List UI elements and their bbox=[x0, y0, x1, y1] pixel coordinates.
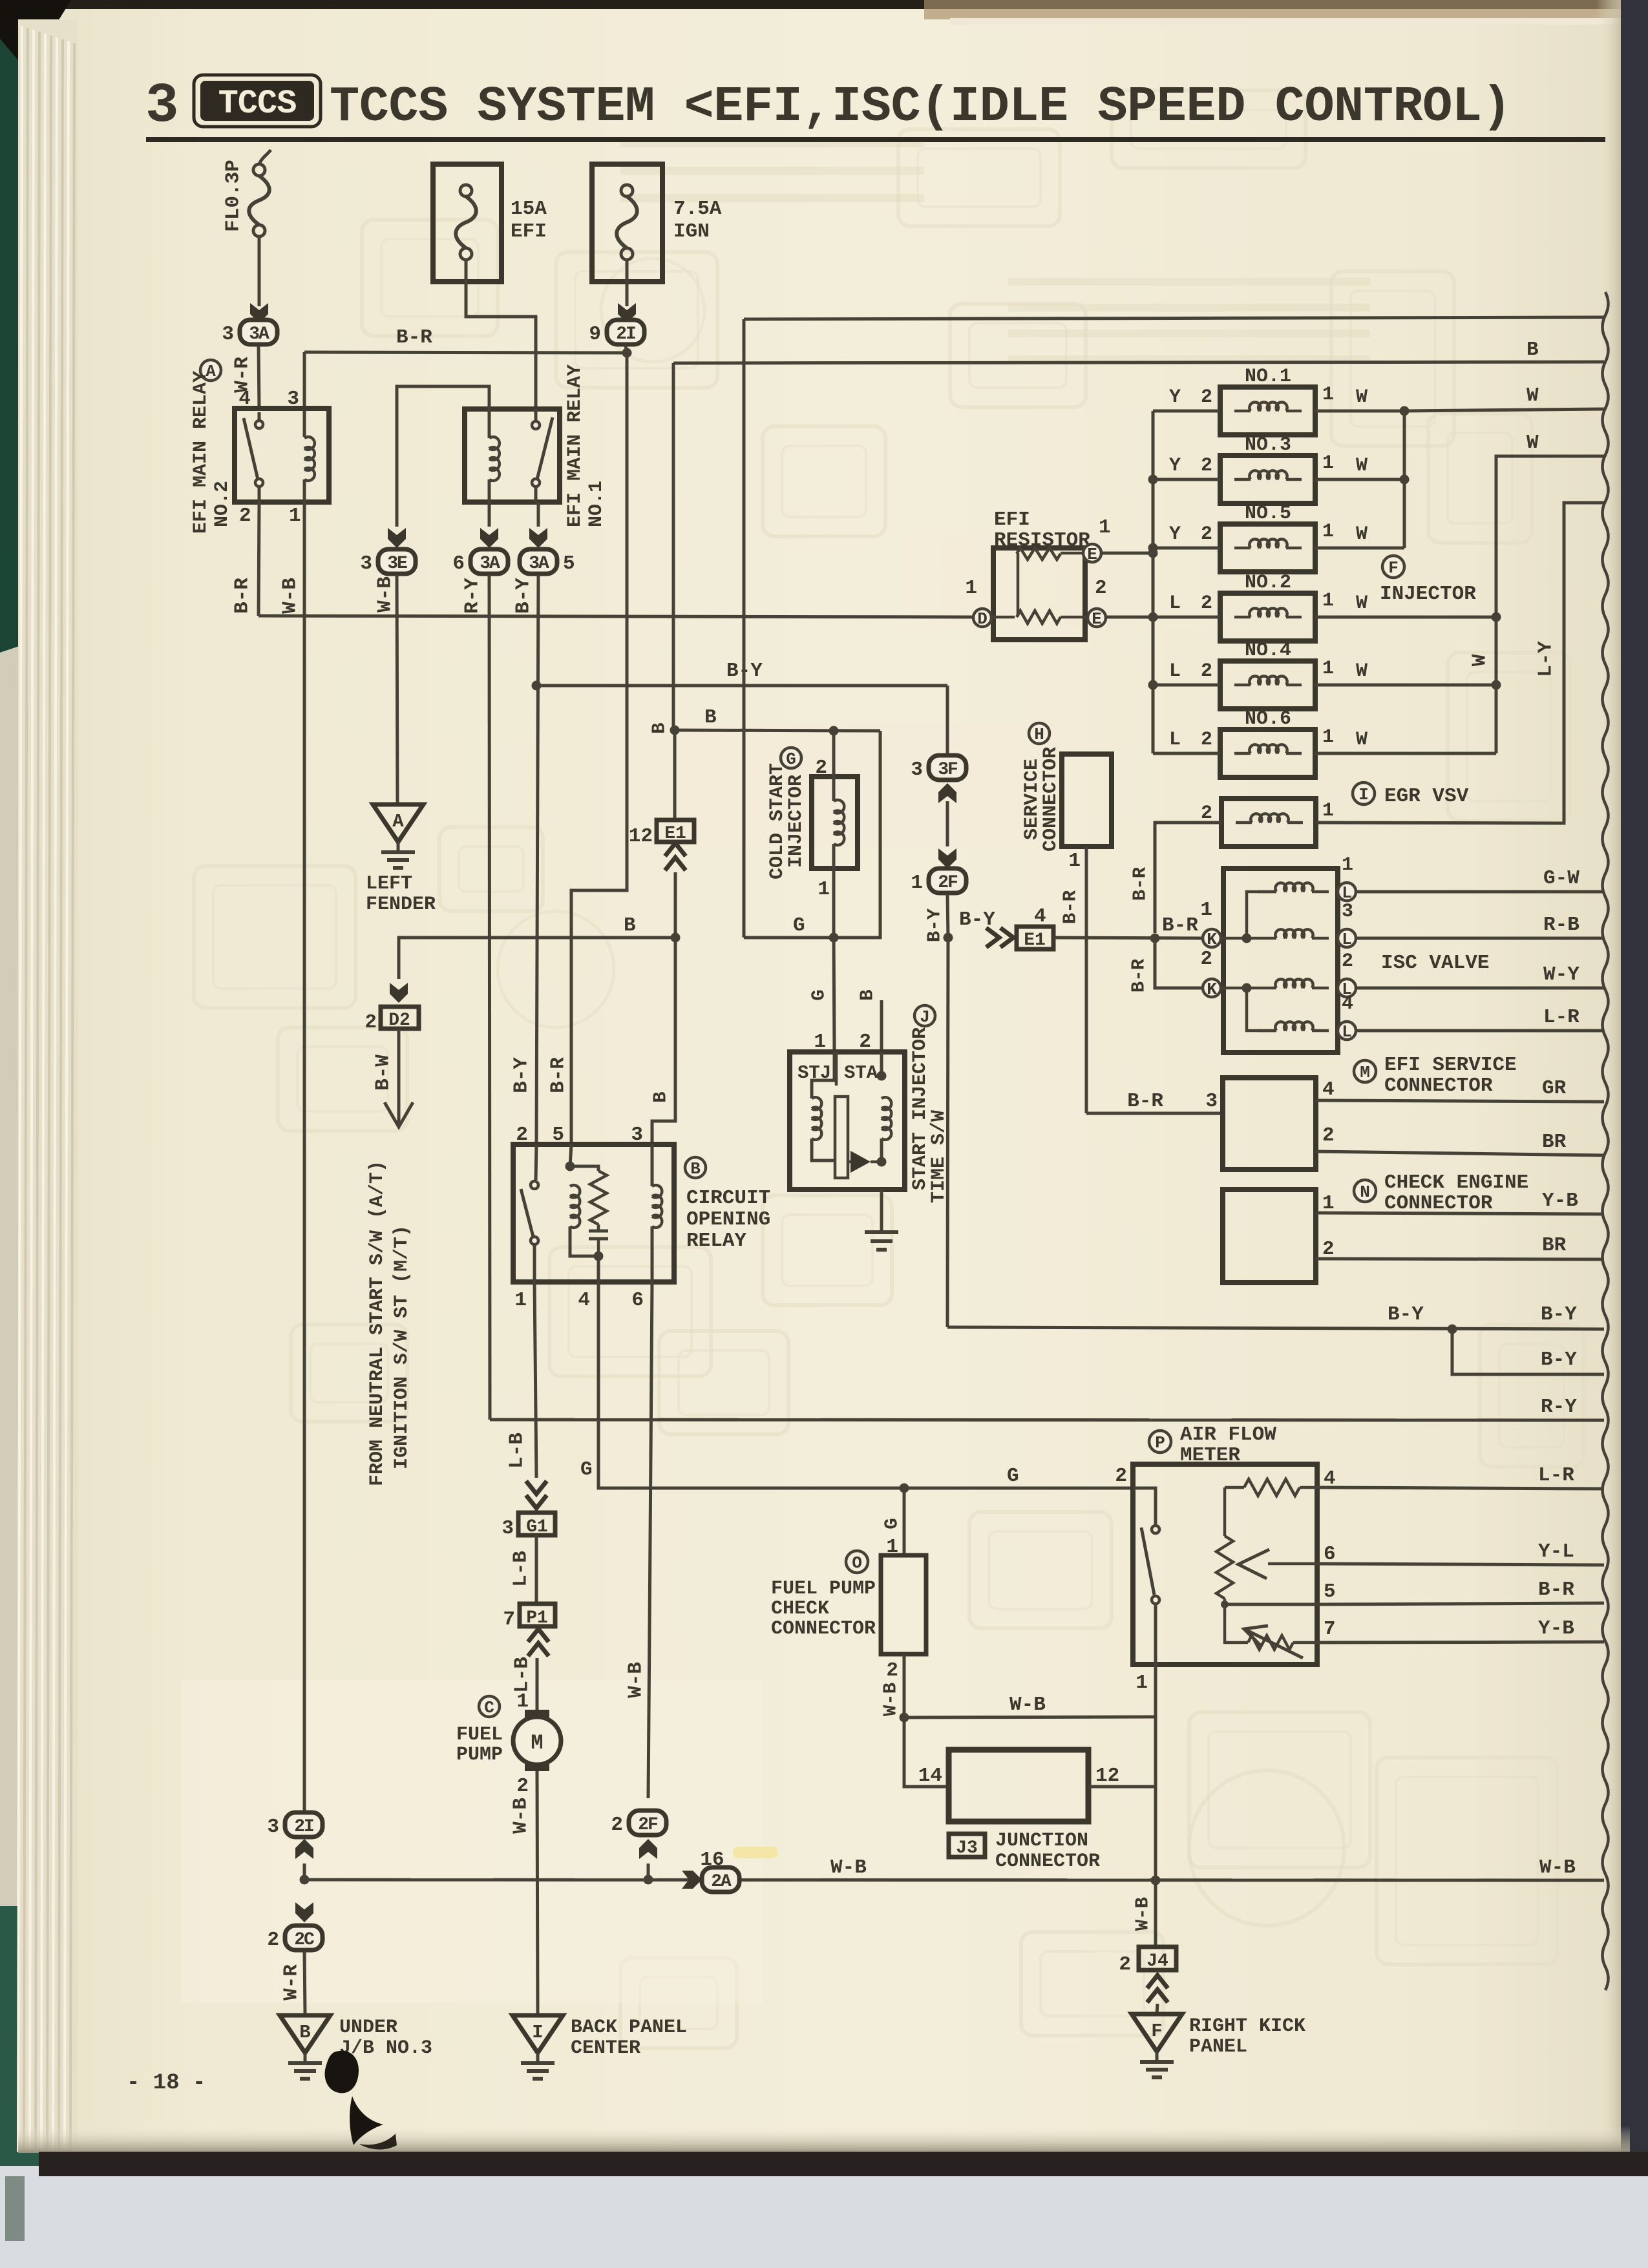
svg-text:B-Y: B-Y bbox=[1541, 1349, 1577, 1371]
arrow into 3A bbox=[480, 528, 498, 548]
svg-text:3: 3 bbox=[911, 759, 923, 781]
contact triangle bbox=[850, 1151, 871, 1173]
wire bbox=[1286, 752, 1302, 755]
svg-text:2: 2 bbox=[1119, 1953, 1131, 1976]
svg-text:7: 7 bbox=[503, 1608, 515, 1631]
wire L-R to right edge bbox=[1317, 1487, 1604, 1489]
wire L-B bbox=[535, 1535, 538, 1604]
wire B-R to ISC pin 1 bbox=[1053, 938, 1203, 938]
connector oval 2C (row 2) 2C bbox=[267, 1926, 322, 1951]
svg-text:3F: 3F bbox=[938, 760, 958, 780]
circled letter L tag L pin 3 bbox=[1338, 929, 1356, 949]
wire W out of NO.5 bbox=[1315, 547, 1404, 550]
junction STA contact bbox=[877, 1157, 887, 1167]
junction bbox=[1148, 475, 1158, 485]
svg-text:INJECTOR: INJECTOR bbox=[1380, 583, 1476, 605]
wire bbox=[1258, 937, 1276, 940]
connector oval 2I (row 3) 2I bbox=[267, 1812, 322, 1838]
wire W-Y to right edge bbox=[1356, 987, 1604, 990]
svg-text:G: G bbox=[793, 914, 805, 937]
svg-text:A: A bbox=[392, 811, 404, 832]
svg-text:K: K bbox=[1207, 980, 1217, 999]
svg-text:2: 2 bbox=[1342, 950, 1353, 972]
ISC coil pin 1 bbox=[1275, 883, 1313, 892]
top-left black corner bbox=[0, 0, 71, 90]
circled letter F tag F bbox=[1382, 556, 1404, 578]
svg-text:B: B bbox=[704, 706, 717, 729]
svg-text:B-Y: B-Y bbox=[1388, 1303, 1424, 1326]
svg-text:2: 2 bbox=[1201, 660, 1212, 682]
svg-text:W-R: W-R bbox=[280, 1964, 303, 2000]
svg-text:IGNITION S/W ST (M/T): IGNITION S/W ST (M/T) bbox=[391, 1225, 413, 1469]
wire B horizontal (top) bbox=[673, 362, 1604, 363]
svg-text:6: 6 bbox=[452, 552, 465, 575]
bimetal strip bbox=[835, 1097, 848, 1178]
wire bbox=[1293, 1641, 1317, 1644]
connector box P1 bbox=[520, 1604, 555, 1626]
svg-text:1: 1 bbox=[514, 1289, 527, 1312]
wire L-Y from EGR VSV to right edge bbox=[1316, 503, 1604, 823]
svg-text:G: G bbox=[882, 1518, 903, 1529]
wire switch to pin 1 bbox=[1154, 1604, 1157, 1664]
circled letter P tag P bbox=[1149, 1431, 1171, 1453]
junction B bbox=[670, 726, 680, 735]
ground UNDER J/B NO.3 bbox=[280, 2015, 330, 2079]
svg-text:16: 16 bbox=[700, 1849, 724, 1871]
junction STA coil top bbox=[877, 1071, 887, 1081]
svg-text:G: G bbox=[580, 1458, 593, 1481]
svg-text:W-B: W-B bbox=[374, 576, 397, 613]
svg-text:L: L bbox=[1342, 930, 1352, 949]
svg-text:1: 1 bbox=[1322, 800, 1334, 822]
wire L into NO.6 bbox=[1153, 752, 1220, 755]
circled letter A tag A bbox=[200, 360, 221, 381]
svg-text:14: 14 bbox=[918, 1765, 942, 1787]
svg-text:CONNECTOR: CONNECTOR bbox=[1384, 1075, 1493, 1097]
svg-text:R-B: R-B bbox=[1543, 914, 1579, 936]
junction bbox=[1400, 406, 1410, 416]
wire pin1 to STJ coil bbox=[812, 1052, 834, 1098]
svg-text:IGN: IGN bbox=[673, 220, 710, 243]
wire B-Y horizontal to 3F bbox=[536, 684, 947, 688]
svg-text:7.5A: 7.5A bbox=[673, 198, 722, 220]
junction bus/E1 bbox=[1148, 549, 1158, 558]
svg-text:B-R: B-R bbox=[1128, 958, 1150, 992]
svg-text:Y-L: Y-L bbox=[1538, 1540, 1574, 1563]
wire W out of NO.2 bbox=[1315, 616, 1496, 619]
resistor element 2 bbox=[1017, 611, 1061, 624]
wire W out of NO.6 bbox=[1315, 752, 1496, 755]
svg-text:W-B: W-B bbox=[1132, 1897, 1154, 1931]
wire STA to ground bbox=[880, 1190, 883, 1231]
junction ISC b bbox=[1242, 983, 1252, 993]
svg-text:1: 1 bbox=[1322, 384, 1334, 406]
svg-text:FL0.3P: FL0.3P bbox=[222, 160, 245, 232]
svg-text:GR: GR bbox=[1542, 1077, 1567, 1100]
wire bbox=[651, 1226, 654, 1282]
ground (start injector time switch) bbox=[865, 1232, 898, 1250]
connector oval 2F (row 2) 2F bbox=[611, 1811, 666, 1836]
svg-text:B-R: B-R bbox=[396, 326, 432, 349]
connector box D2 bbox=[381, 1007, 419, 1029]
wire bbox=[1286, 410, 1302, 413]
svg-text:12: 12 bbox=[629, 825, 653, 848]
wire top line to right edge bbox=[744, 317, 1604, 319]
wire bbox=[1300, 1486, 1317, 1489]
junction B-Y / E1 bbox=[944, 933, 953, 943]
svg-text:W-B: W-B bbox=[880, 1683, 902, 1716]
wire bbox=[1258, 987, 1276, 990]
wire W-R to relay pin 4 bbox=[259, 346, 259, 408]
connector oval 3E (row 3) 3E bbox=[360, 549, 416, 575]
wire R-Y to right edge bbox=[490, 1420, 1604, 1420]
service connector box bbox=[1062, 754, 1112, 846]
injector box NO.1 bbox=[1220, 387, 1315, 435]
wire Y/L bus vertical bbox=[1152, 411, 1155, 753]
svg-text:C: C bbox=[484, 1698, 494, 1717]
svg-text:B-R: B-R bbox=[1162, 914, 1198, 937]
wire B-R from EGR VSV to junction bbox=[1155, 823, 1221, 933]
junction bbox=[1148, 680, 1158, 690]
svg-text:BR: BR bbox=[1542, 1131, 1567, 1153]
wire to resistor bbox=[570, 1166, 598, 1171]
svg-text:6: 6 bbox=[631, 1289, 644, 1312]
coil NO.3 bbox=[1249, 470, 1287, 479]
junction W-B bbox=[900, 1713, 909, 1723]
svg-text:1: 1 bbox=[1342, 854, 1353, 876]
circled letter L tag L pin 2 bbox=[1338, 979, 1356, 999]
svg-text:5: 5 bbox=[563, 552, 575, 575]
svg-text:2: 2 bbox=[886, 1659, 898, 1682]
junction connector box bbox=[949, 1750, 1088, 1822]
connector oval 2A 2A bbox=[702, 1867, 739, 1892]
wire W-B vertical bbox=[1154, 1664, 1157, 1947]
svg-text:EFI SERVICE: EFI SERVICE bbox=[1384, 1054, 1517, 1076]
connector oval 2I (row 9) 2I bbox=[589, 320, 644, 346]
yellow smear bbox=[733, 1847, 778, 1858]
ground LEFT FENDER bbox=[373, 804, 423, 868]
coil bbox=[489, 437, 500, 481]
svg-text:W-B: W-B bbox=[625, 1662, 648, 1698]
junction pin 4 bbox=[594, 1252, 604, 1261]
injector box NO.5 bbox=[1220, 524, 1315, 572]
svg-text:E: E bbox=[1087, 545, 1097, 564]
svg-text:2I: 2I bbox=[294, 1817, 313, 1837]
svg-text:L: L bbox=[1342, 1022, 1352, 1042]
link to coil 4 bbox=[1247, 988, 1276, 1031]
wire bbox=[1234, 752, 1251, 755]
wire bbox=[1223, 1599, 1227, 1604]
wire B down to B junction bbox=[674, 872, 677, 938]
circled letter K tag K pin1 bbox=[1203, 929, 1221, 949]
svg-text:3E: 3E bbox=[387, 554, 407, 574]
svg-text:J4: J4 bbox=[1146, 1951, 1168, 1971]
svg-text:P: P bbox=[1155, 1433, 1165, 1453]
fusible link FL0.3P bbox=[259, 150, 271, 164]
svg-text:D: D bbox=[977, 609, 988, 629]
junction B-Y bbox=[532, 681, 542, 691]
wire bbox=[1287, 821, 1303, 824]
wire bbox=[1286, 616, 1302, 619]
svg-text:W-B: W-B bbox=[1009, 1694, 1046, 1716]
svg-text:W-B: W-B bbox=[830, 1856, 867, 1879]
svg-text:1: 1 bbox=[516, 1690, 529, 1713]
svg-text:I: I bbox=[532, 2022, 543, 2043]
wire R-Y long vertical bbox=[489, 575, 490, 1420]
coil NO.5 bbox=[1249, 539, 1287, 548]
svg-text:P1: P1 bbox=[526, 1608, 548, 1628]
wire to 3E connector bbox=[397, 386, 489, 527]
wire bbox=[1234, 478, 1251, 481]
svg-text:1: 1 bbox=[911, 872, 923, 894]
svg-text:4: 4 bbox=[578, 1289, 590, 1312]
svg-text:L-B: L-B bbox=[510, 1551, 533, 1587]
svg-text:LEFT: LEFT bbox=[366, 873, 412, 895]
svg-text:STA: STA bbox=[844, 1062, 878, 1084]
wire B-R to relay NO.2 pin 3 bbox=[303, 352, 306, 437]
svg-text:Y-B: Y-B bbox=[1542, 1190, 1578, 1212]
svg-text:1: 1 bbox=[1068, 850, 1081, 872]
svg-text:G: G bbox=[1007, 1465, 1019, 1487]
junction coil/resistor bbox=[565, 1162, 575, 1171]
arrows below J4 bbox=[1147, 1975, 1168, 1988]
svg-text:CENTER: CENTER bbox=[571, 2037, 640, 2059]
wire W bus vertical 135 bbox=[1403, 411, 1406, 548]
svg-text:1: 1 bbox=[818, 878, 830, 901]
svg-text:3: 3 bbox=[1205, 1090, 1218, 1113]
wire B-Y to circuit opening relay pin 2 bbox=[536, 575, 538, 1144]
wire bbox=[570, 1144, 571, 1166]
svg-text:L-B: L-B bbox=[511, 1657, 534, 1693]
wire bbox=[397, 575, 397, 803]
wire Y-L to right edge bbox=[1317, 1564, 1604, 1565]
left book cover (green) bbox=[0, 39, 22, 653]
junction pot bottom bbox=[1221, 1601, 1229, 1608]
wire bbox=[1312, 1029, 1329, 1033]
junction bus/E2 bbox=[1148, 613, 1158, 622]
wire B-R to EFI resistor (D) bbox=[259, 616, 973, 617]
svg-text:L-R: L-R bbox=[1538, 1464, 1574, 1487]
svg-text:B-R: B-R bbox=[1127, 1090, 1163, 1113]
circled letter E tag E row2 bbox=[1088, 609, 1106, 629]
svg-text:3A: 3A bbox=[480, 554, 500, 574]
arrows below E1 bbox=[665, 843, 686, 856]
svg-text:M: M bbox=[531, 1731, 543, 1755]
ISC coil pin 3 bbox=[1275, 929, 1313, 938]
svg-text:JUNCTION: JUNCTION bbox=[995, 1830, 1088, 1852]
coil NO.6 bbox=[1249, 744, 1287, 753]
svg-text:9: 9 bbox=[589, 323, 601, 346]
svg-text:3: 3 bbox=[502, 1517, 514, 1540]
arrow into 3A bbox=[250, 303, 268, 323]
coil bbox=[812, 1097, 821, 1140]
relay box NO.2 bbox=[235, 408, 329, 502]
connector box J4 bbox=[1139, 1947, 1176, 1970]
arrow into 3A bbox=[529, 528, 547, 548]
svg-text:3: 3 bbox=[267, 1816, 279, 1838]
svg-text:3: 3 bbox=[145, 74, 179, 138]
svg-text:EFI MAIN RELAY: EFI MAIN RELAY bbox=[564, 364, 586, 527]
circled letter H tag H bbox=[1029, 723, 1050, 744]
svg-text:B-R: B-R bbox=[1538, 1579, 1574, 1601]
svg-text:12: 12 bbox=[1095, 1765, 1119, 1787]
wire STA coil bottom bbox=[880, 1139, 883, 1162]
fuse 7.5A element bbox=[621, 185, 633, 196]
connector oval 3A (row 5) 3A bbox=[520, 549, 575, 575]
wire B-R to right edge bbox=[1317, 1603, 1604, 1604]
connector oval 3A (row 3) 3A bbox=[222, 320, 277, 346]
svg-text:B-R: B-R bbox=[1060, 890, 1081, 924]
svg-text:W: W bbox=[1469, 654, 1492, 666]
svg-text:2F: 2F bbox=[638, 1815, 658, 1835]
coil bbox=[304, 437, 315, 481]
start injector time switch box bbox=[790, 1052, 905, 1190]
svg-text:B-Y: B-Y bbox=[924, 908, 945, 942]
svg-text:G1: G1 bbox=[526, 1517, 548, 1537]
wire G to pin 1 bbox=[903, 1488, 906, 1555]
wire bbox=[258, 487, 261, 502]
svg-text:Y: Y bbox=[1169, 455, 1181, 477]
svg-text:2: 2 bbox=[1201, 593, 1212, 614]
svg-text:OPENING: OPENING bbox=[686, 1208, 770, 1231]
circled letter L tag L pin 4 bbox=[1338, 1022, 1356, 1042]
svg-text:F: F bbox=[1151, 2021, 1162, 2042]
svg-text:1: 1 bbox=[965, 577, 977, 600]
coil NO.2 bbox=[1249, 608, 1287, 617]
wire bbox=[871, 1160, 882, 1164]
wire Y into NO.3 bbox=[1153, 478, 1220, 481]
wire 15A EFI to relay NO.1 switch bbox=[466, 260, 536, 409]
wire pin 2 inside bbox=[880, 1052, 883, 1076]
wire 3F to 2F bbox=[946, 801, 949, 846]
wire bbox=[651, 1144, 654, 1186]
wire W-B pin 2 bbox=[903, 1654, 906, 1717]
svg-text:B-W: B-W bbox=[372, 1055, 395, 1091]
svg-text:W: W bbox=[1527, 432, 1539, 454]
wire E row2 to bus bbox=[1106, 616, 1153, 619]
circled letter N tag N bbox=[1354, 1180, 1376, 1202]
cold start injector box bbox=[812, 777, 858, 868]
wire to switch bbox=[1133, 1488, 1156, 1526]
svg-text:R-Y: R-Y bbox=[461, 578, 484, 614]
wire bbox=[1061, 616, 1088, 619]
svg-text:B: B bbox=[690, 1159, 701, 1179]
svg-text:CIRCUIT: CIRCUIT bbox=[686, 1187, 770, 1210]
svg-text:L-Y: L-Y bbox=[1535, 641, 1558, 677]
circled letter K tag K pin2 bbox=[1203, 979, 1221, 999]
wire BR to right edge bbox=[1316, 1151, 1604, 1155]
wire bbox=[488, 479, 491, 502]
svg-text:2: 2 bbox=[364, 1011, 377, 1034]
wire pin 5 bbox=[1225, 1603, 1317, 1606]
wire bbox=[597, 1256, 600, 1282]
svg-text:W-B: W-B bbox=[279, 578, 302, 614]
svg-text:J: J bbox=[920, 1007, 930, 1027]
svg-text:1: 1 bbox=[1322, 521, 1334, 543]
wire B to cold start injector loop bbox=[675, 730, 880, 731]
arrow into 2I bbox=[295, 1839, 313, 1859]
svg-text:7: 7 bbox=[1324, 1618, 1336, 1641]
wire bbox=[1234, 410, 1251, 413]
title underline bbox=[146, 137, 1605, 142]
svg-text:O: O bbox=[852, 1553, 862, 1573]
svg-text:NO.2: NO.2 bbox=[1245, 572, 1291, 594]
wire E row1 to bus bbox=[1101, 552, 1153, 555]
svg-text:EFI: EFI bbox=[994, 509, 1030, 531]
fuse box 7.5A IGN bbox=[592, 164, 662, 282]
circled letter J tag J bbox=[914, 1005, 935, 1027]
svg-text:1: 1 bbox=[289, 505, 301, 527]
wire bbox=[1312, 987, 1329, 990]
svg-text:INJECTOR: INJECTOR bbox=[785, 775, 807, 868]
wire Y-B to right edge bbox=[1317, 1642, 1604, 1643]
connector oval 3F (row 3) 3F bbox=[911, 755, 966, 781]
circled letter G tag G bbox=[781, 748, 801, 769]
wire bbox=[534, 1282, 536, 1478]
link pot to resistor bbox=[1223, 1487, 1227, 1536]
wire pin 2 bbox=[832, 731, 836, 801]
svg-text:2I: 2I bbox=[616, 324, 635, 344]
svg-text:AIR FLOW: AIR FLOW bbox=[1180, 1423, 1276, 1446]
link to thermistor bbox=[1225, 1604, 1248, 1643]
svg-text:NO.6: NO.6 bbox=[1245, 708, 1291, 730]
tag box J3 bbox=[949, 1834, 985, 1857]
svg-text:2: 2 bbox=[1201, 523, 1212, 545]
svg-text:K: K bbox=[1207, 930, 1217, 949]
svg-text:2: 2 bbox=[1095, 577, 1107, 600]
svg-text:15A: 15A bbox=[511, 198, 547, 220]
circled letter M tag M bbox=[1354, 1060, 1376, 1082]
wire bbox=[1286, 547, 1302, 550]
svg-text:R-Y: R-Y bbox=[1541, 1396, 1577, 1418]
EGR VSV coil bbox=[1251, 814, 1288, 823]
thermistor bbox=[1248, 1635, 1293, 1650]
divider bbox=[835, 1052, 838, 1086]
svg-text:1: 1 bbox=[1200, 899, 1212, 921]
svg-text:F: F bbox=[1388, 558, 1399, 578]
svg-text:2: 2 bbox=[815, 757, 827, 779]
svg-text:B-R: B-R bbox=[547, 1057, 570, 1093]
svg-text:D2: D2 bbox=[388, 1011, 410, 1031]
wire loop right/bottom bbox=[744, 731, 880, 938]
wire W to right edge bbox=[1404, 409, 1604, 411]
wire bbox=[534, 409, 538, 421]
svg-text:TCCS: TCCS bbox=[218, 85, 297, 123]
arrow into 2F bbox=[938, 848, 956, 868]
junction bbox=[1400, 475, 1410, 485]
svg-text:FUEL: FUEL bbox=[456, 1724, 503, 1746]
svg-text:W: W bbox=[1356, 455, 1368, 477]
svg-text:4: 4 bbox=[1322, 1078, 1335, 1101]
svg-text:EFI MAIN RELAY: EFI MAIN RELAY bbox=[190, 371, 212, 534]
wire pin6 to 3A bbox=[488, 502, 491, 527]
svg-text:B: B bbox=[649, 722, 670, 733]
link row1-row2 bbox=[1017, 553, 1020, 616]
wire B down to E1-12 bbox=[673, 730, 677, 819]
resistor bbox=[590, 1171, 607, 1224]
svg-text:B-Y: B-Y bbox=[511, 1057, 533, 1093]
svg-text:1: 1 bbox=[1099, 516, 1111, 539]
svg-text:3: 3 bbox=[360, 552, 372, 575]
wire STJ coil to bimetal bbox=[812, 1139, 834, 1160]
EFI resistor box bbox=[993, 548, 1085, 640]
svg-text:2: 2 bbox=[1201, 386, 1212, 408]
wire G to start injector time switch bbox=[834, 938, 834, 1052]
coil bbox=[882, 1097, 891, 1140]
svg-text:CONNECTOR: CONNECTOR bbox=[1040, 747, 1062, 852]
wire bbox=[1286, 684, 1302, 687]
coil NO.1 bbox=[1249, 402, 1287, 411]
